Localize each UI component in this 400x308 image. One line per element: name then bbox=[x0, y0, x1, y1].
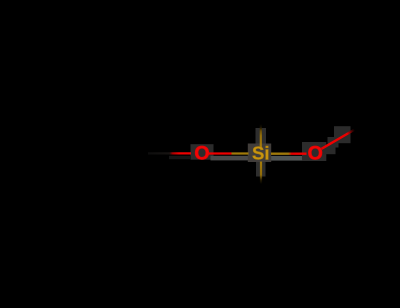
svg-text:Si: Si bbox=[252, 142, 269, 163]
svg-text:O: O bbox=[308, 143, 323, 165]
svg-text:O: O bbox=[194, 143, 209, 165]
